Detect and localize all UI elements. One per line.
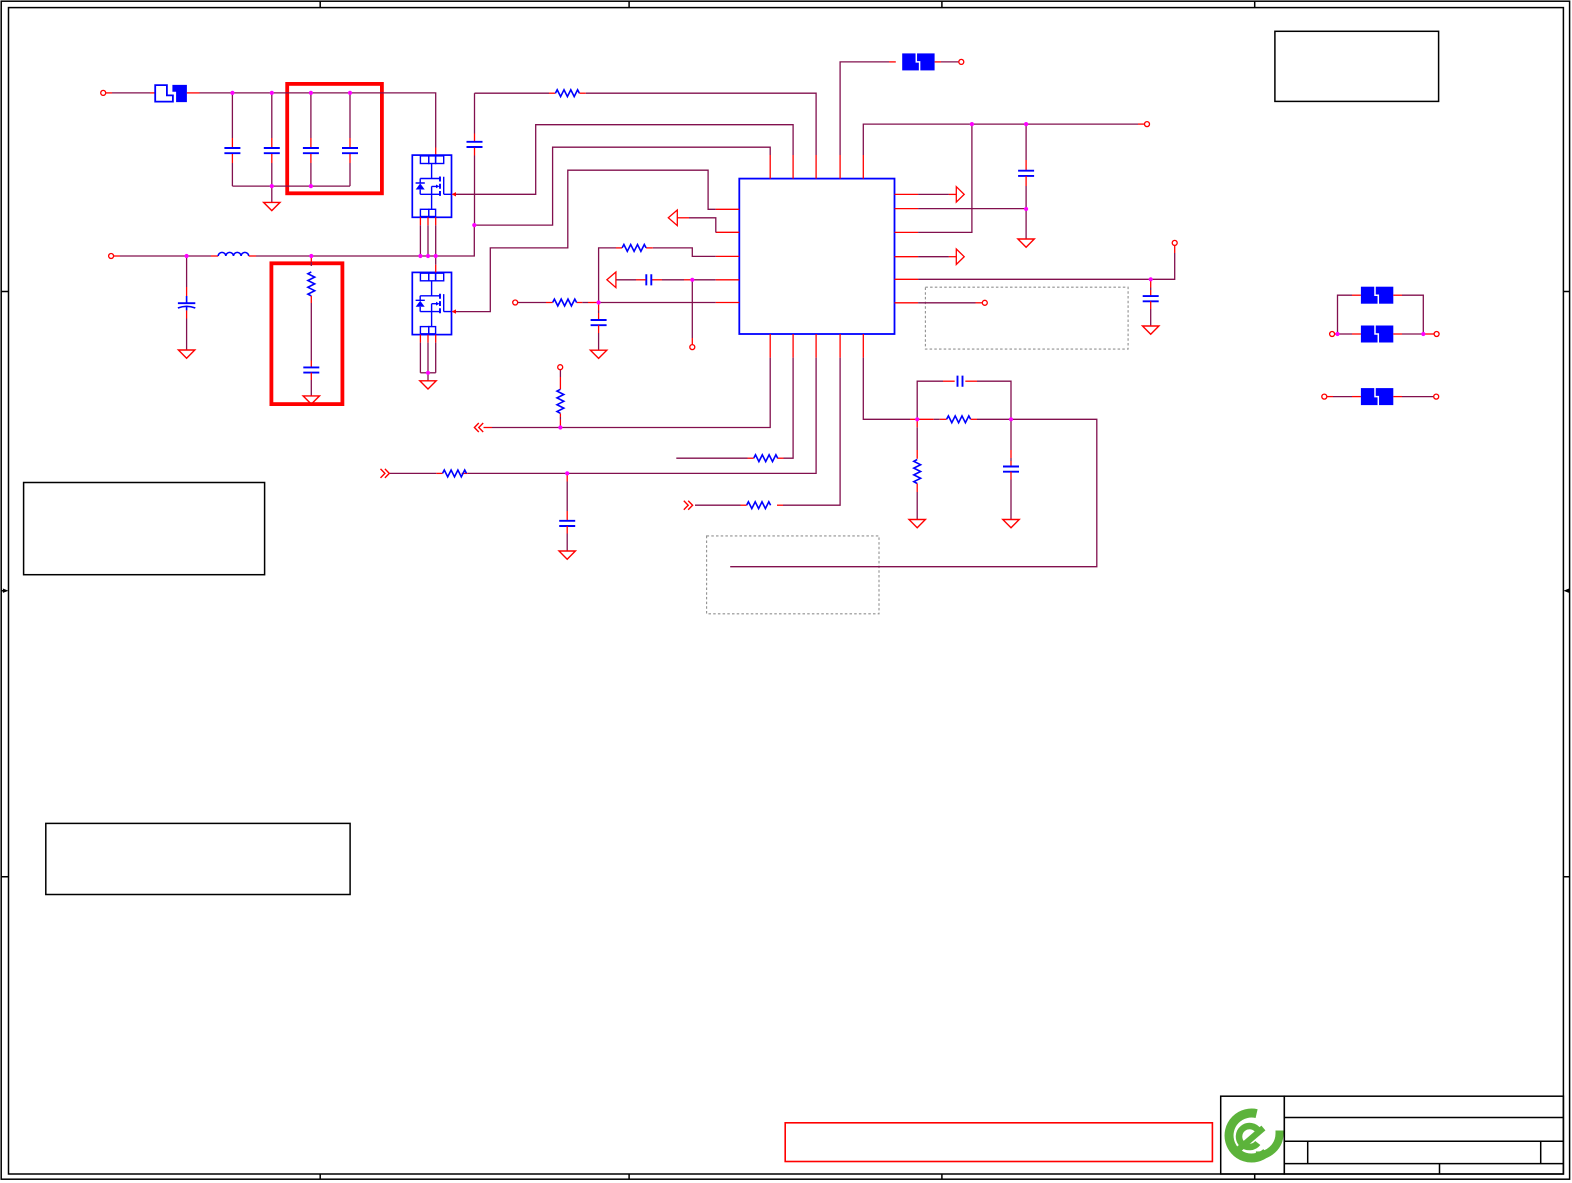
U1 bottom pins — [770, 334, 863, 358]
fuse F2 — [902, 53, 934, 71]
resistor R7 — [443, 470, 467, 477]
wire SW sense to pin T1 — [474, 147, 770, 225]
wire — [114, 255, 120, 257]
Q2 source pins — [420, 335, 435, 343]
capacitor C14 to ground — [1010, 419, 1012, 450]
ground — [559, 551, 575, 559]
resistor R4 — [553, 299, 577, 306]
transistor Q1 high-side — [412, 155, 451, 217]
port EN — [1172, 240, 1177, 245]
highlight box snubber — [271, 263, 342, 404]
highlight box input caps — [287, 84, 382, 193]
resistor R10 to ground — [916, 419, 918, 427]
port VIN — [101, 90, 106, 95]
wire — [106, 92, 112, 94]
resistor R1 snubber — [310, 256, 312, 262]
wire to port ILIM — [691, 280, 693, 338]
wire pin R1 — [918, 193, 949, 195]
port right pair right — [1434, 332, 1439, 337]
wire — [1338, 295, 1353, 334]
capacitor C1 — [231, 93, 233, 138]
wire — [935, 61, 941, 63]
port PG — [982, 300, 987, 305]
note box upper-left — [24, 483, 265, 575]
wire pin L4 comp — [692, 279, 715, 281]
wire rail to pin R3 — [918, 124, 972, 232]
wire cap ground bus — [232, 185, 350, 187]
title block — [1221, 1096, 1564, 1174]
inductor L1 — [218, 252, 249, 256]
ground — [909, 520, 925, 528]
fuse F4 — [1338, 333, 1353, 335]
port SW output — [109, 254, 114, 259]
wire pin L2 feedback arrow — [689, 218, 716, 233]
controller IC U1 — [739, 179, 894, 334]
fuse F1 — [155, 85, 173, 102]
capacitor C13 comp parallel — [917, 381, 943, 419]
wire pin T4 — [840, 62, 889, 155]
fuse F5 — [1361, 388, 1393, 406]
fuse F3 — [1361, 286, 1393, 304]
port VCC — [1145, 122, 1150, 127]
wire pin B2 — [784, 358, 794, 459]
input arrow COMP — [607, 272, 616, 288]
dashed option box right — [925, 287, 1128, 349]
ground — [303, 396, 319, 404]
ground — [1003, 520, 1019, 528]
capacitor C5 output electrolytic — [186, 256, 188, 287]
output arrow HG — [956, 187, 964, 202]
port SS — [558, 365, 563, 370]
dashed option box lower — [707, 536, 879, 614]
capacitor C9 — [1150, 279, 1152, 287]
capacitor C2 — [271, 93, 273, 138]
U1 left pins — [716, 209, 740, 302]
capacitor C7 bootstrap — [474, 93, 476, 133]
capacitor C10 — [646, 274, 651, 285]
highlight box bottom note — [785, 1123, 1212, 1162]
Q1 source pins — [420, 217, 435, 225]
note box lower-left — [46, 823, 350, 894]
port BST — [959, 59, 964, 64]
Q1 gate arrow — [452, 192, 457, 196]
capacitor C11 — [598, 303, 600, 311]
offpage chevron MODE right — [684, 501, 693, 510]
transistor Q2 low-side — [412, 272, 451, 334]
U1 top pins — [770, 155, 863, 179]
ground — [271, 186, 273, 202]
resistor R3 — [622, 245, 646, 252]
ground — [590, 350, 606, 358]
resistor R8 — [747, 502, 771, 509]
wire pin R6 — [918, 302, 975, 304]
ground — [1143, 326, 1159, 334]
wire pin L3 — [653, 248, 716, 257]
input arrow FB — [668, 210, 677, 226]
port single right — [1434, 394, 1439, 399]
resistor R9 comp — [947, 416, 971, 423]
port RT — [513, 300, 518, 305]
resistor R6 — [754, 455, 778, 462]
ground — [1018, 239, 1034, 247]
capacitor C3 — [310, 93, 312, 138]
wire pin B4 — [783, 358, 840, 506]
capacitor C12 — [566, 473, 568, 481]
port single left — [1322, 394, 1327, 399]
wire pin B1 — [560, 358, 770, 428]
wire pin R5 — [918, 278, 1151, 280]
ground — [178, 350, 194, 358]
resistor R2 vcc feed — [475, 92, 550, 94]
wire gate2 to pin L1 — [456, 170, 716, 311]
ground — [420, 381, 436, 389]
Q2 drain pin — [435, 256, 437, 265]
capacitor C6 snubber — [310, 361, 312, 368]
wire gate1 to pin T2 — [456, 125, 793, 195]
U1 right pins — [895, 194, 919, 302]
wire pin B3 — [567, 358, 816, 474]
company logo — [1229, 1113, 1279, 1158]
capacitor C4 — [349, 93, 351, 138]
wire pin L5 — [599, 302, 716, 304]
wire pin R4 — [918, 256, 949, 258]
resistor R5 pull — [559, 420, 561, 428]
wire — [187, 92, 200, 94]
capacitor C8 vcc decoupling — [1025, 124, 1027, 160]
output arrow LG — [956, 249, 964, 264]
offpage chevron FREQ right — [381, 469, 390, 478]
offpage chevron SS left — [474, 423, 483, 432]
Q2 gate arrow — [452, 309, 457, 313]
port right pair left — [1330, 332, 1335, 337]
wire pin B5 compensation — [863, 358, 910, 420]
wire pin T5 rail — [863, 124, 1138, 155]
note box top-right — [1275, 31, 1439, 101]
